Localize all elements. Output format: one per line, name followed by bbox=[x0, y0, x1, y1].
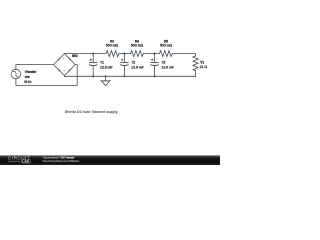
svg-text:BR2: BR2 bbox=[72, 54, 78, 58]
svg-text:500 mΩ: 500 mΩ bbox=[131, 44, 144, 48]
svg-text:13.6 mF: 13.6 mF bbox=[161, 65, 174, 69]
svg-text:sine: sine bbox=[25, 75, 30, 79]
svg-text:LAB: LAB bbox=[22, 159, 29, 163]
svg-text:V1: V1 bbox=[200, 60, 204, 64]
svg-text:60 Hz: 60 Hz bbox=[24, 80, 32, 84]
svg-text:C1: C1 bbox=[101, 61, 105, 65]
svg-text:13.6 mF: 13.6 mF bbox=[100, 65, 113, 69]
svg-text:21 Ω: 21 Ω bbox=[200, 65, 208, 69]
svg-text:500 mΩ: 500 mΩ bbox=[160, 44, 173, 48]
svg-text:C3: C3 bbox=[162, 61, 166, 65]
svg-text:500 mΩ: 500 mΩ bbox=[106, 44, 119, 48]
svg-text:Vheater: Vheater bbox=[25, 70, 37, 74]
svg-text:Ghetto DC tube filament supply: Ghetto DC tube filament supply bbox=[65, 110, 118, 114]
svg-text:C2: C2 bbox=[132, 61, 136, 65]
svg-text:http://circuitlab.com/c63kako: http://circuitlab.com/c63kako bbox=[43, 159, 80, 163]
svg-text:13.6 mF: 13.6 mF bbox=[131, 65, 144, 69]
